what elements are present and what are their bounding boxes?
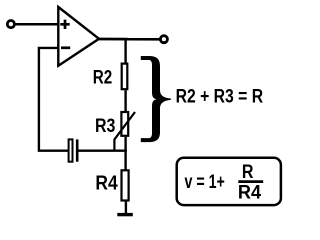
output terminal [160, 36, 167, 43]
op-amp + input symbol [60, 20, 69, 29]
resistor R3 [121, 112, 128, 136]
capacitor C1 right plate [76, 139, 79, 161]
R3 wiper diagonal with foot [114, 112, 135, 151]
svg-text:R: R [242, 162, 254, 183]
fraction bar [238, 180, 263, 183]
capacitor C1 left plate (hollow) [69, 139, 73, 161]
svg-text:v = 1+: v = 1+ [185, 172, 225, 193]
wire: R4 to ground [125, 202, 127, 214]
brace spanning R2 and R3 [141, 56, 171, 142]
wire: output node down to R2 [124, 39, 126, 64]
svg-text:R2 + R3 = R: R2 + R3 = R [176, 86, 264, 107]
op-amp − input symbol [61, 46, 70, 49]
svg-text:R4: R4 [95, 173, 118, 195]
svg-text:R3: R3 [95, 116, 115, 137]
svg-text:R2: R2 [93, 67, 113, 88]
wire: R3 through junction to R4 [124, 137, 126, 170]
ground [117, 213, 133, 216]
wire: R2 to R3 [124, 90, 126, 111]
wire: feedback from − input down and right to capacitor [39, 48, 68, 151]
wire: capacitor to R3/R4 junction [78, 149, 127, 151]
wire: input terminal to op-amp + input [14, 23, 58, 26]
wire: op-amp output to output terminal [99, 38, 161, 41]
formula box [177, 158, 281, 205]
resistor R2 [122, 64, 128, 90]
resistor R4 [122, 170, 129, 200]
svg-text:R4: R4 [238, 183, 262, 204]
input terminal [7, 21, 14, 28]
op-amp U1 [58, 7, 99, 66]
